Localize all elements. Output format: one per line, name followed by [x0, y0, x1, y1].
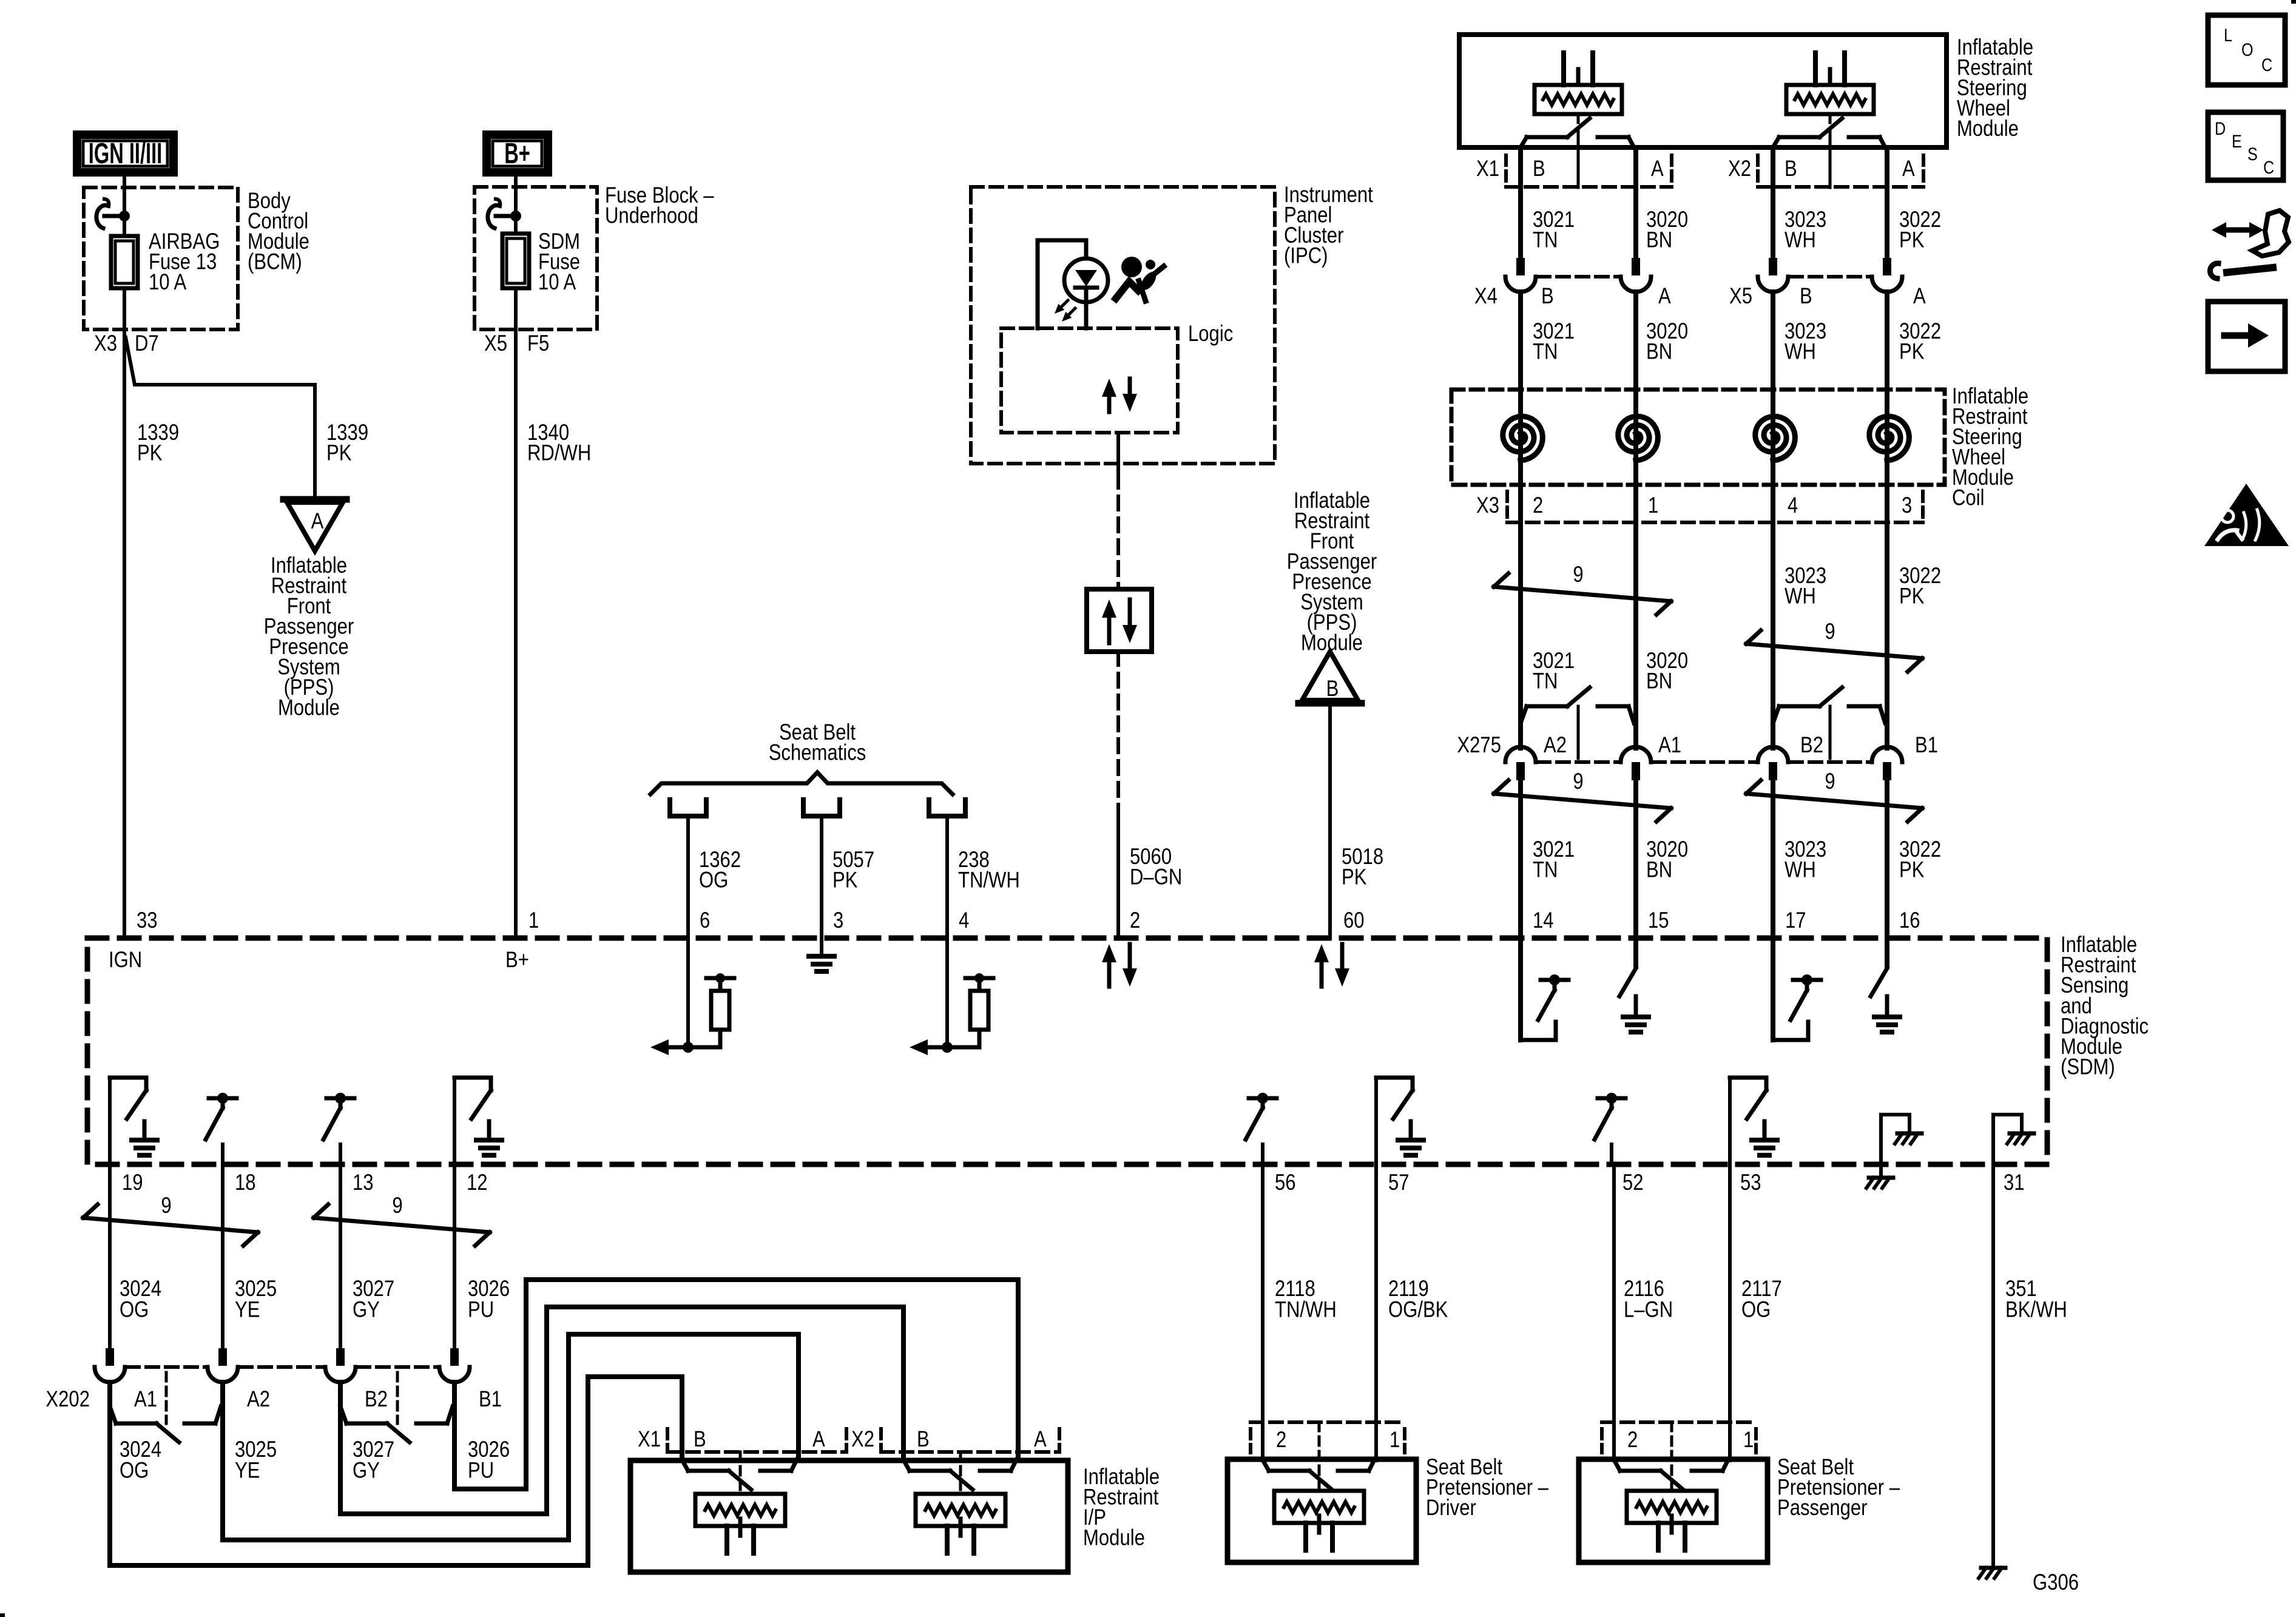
svg-text:BK/WH: BK/WH	[2005, 1297, 2067, 1322]
svg-text:PK: PK	[137, 441, 163, 465]
svg-text:L–GN: L–GN	[1624, 1297, 1673, 1322]
svg-text:TN: TN	[1533, 339, 1558, 364]
Inflatable Restraint Steering Wheel Module Coil dashed box	[1451, 390, 1945, 485]
serial data arrows inside SDM below pin 60	[1320, 962, 1324, 987]
svg-text:B+: B+	[505, 948, 529, 973]
svg-text:A: A	[1658, 284, 1671, 309]
airbag indicator LED circuit wires	[1038, 240, 1086, 328]
svg-text:TN: TN	[1533, 228, 1558, 252]
wires SDM to pretensioner	[1612, 1164, 1616, 1460]
svg-text:IGN: IGN	[109, 948, 142, 973]
svg-text:X2: X2	[1728, 157, 1751, 181]
power label IGN II/III	[77, 135, 174, 172]
svg-text:WH: WH	[1784, 857, 1816, 882]
svg-text:Driver: Driver	[1426, 1496, 1476, 1521]
pretensioner box	[1227, 1459, 1416, 1562]
svg-text:9: 9	[392, 1193, 402, 1218]
triangle ref B	[1298, 700, 1362, 707]
svg-text:13: 13	[353, 1170, 374, 1195]
SDM driver under pin 17	[1771, 938, 1775, 1040]
svg-text:X5: X5	[484, 331, 507, 356]
wire 3026 PU staircase to X2-A	[454, 1280, 1018, 1489]
svg-text:BN: BN	[1646, 857, 1672, 882]
svg-text:B: B	[694, 1427, 706, 1452]
power label B+	[487, 135, 548, 172]
connector X275 cups and pins	[1505, 747, 1536, 762]
SDM internal driver above pin 56	[1249, 1096, 1277, 1101]
svg-text:PK: PK	[1342, 865, 1367, 890]
SDM internal pull-up and arrow	[945, 938, 949, 1047]
SDM internal driver above pin 18	[209, 1096, 237, 1101]
Inflatable Restraint I/P Module box	[630, 1460, 1068, 1572]
svg-text:PK: PK	[1899, 228, 1925, 252]
twisted pair symbol 9 (pair 19-18)	[83, 1218, 258, 1232]
svg-text:1: 1	[1389, 1428, 1400, 1453]
LED light arrows	[1061, 300, 1068, 307]
wire B+ to SDM fuse	[514, 177, 518, 234]
X202 shorting contacts pair B	[338, 1382, 343, 1396]
Logic dashed box	[1001, 328, 1178, 433]
wire 1339 PK left to SDM pin 33	[123, 288, 126, 938]
svg-text:WH: WH	[1784, 584, 1816, 609]
SDM internal driver above pin 52	[1598, 1096, 1626, 1101]
pretensioner squib contacts	[1614, 1460, 1620, 1471]
seat belt connector stub 6	[667, 800, 672, 816]
svg-text:BN: BN	[1646, 669, 1672, 694]
connector X202 cups	[106, 1348, 114, 1366]
svg-text:OG: OG	[699, 868, 728, 893]
svg-text:WH: WH	[1784, 339, 1816, 364]
svg-text:B: B	[1784, 157, 1797, 181]
coil spirals	[1518, 414, 1523, 459]
svg-text:TN: TN	[1533, 857, 1558, 882]
svg-text:A1: A1	[1658, 733, 1681, 758]
svg-text:BN: BN	[1646, 228, 1672, 252]
svg-text:A: A	[1651, 157, 1664, 181]
svg-text:Schematics: Schematics	[769, 740, 866, 765]
svg-text:A: A	[1913, 284, 1926, 309]
svg-text:1: 1	[1648, 493, 1658, 518]
squib driver/passenger stage	[1786, 85, 1874, 114]
X275 shorting contacts pair B	[1773, 706, 1779, 723]
twisted pair symbol 9 (lower pair driver)	[1494, 794, 1671, 808]
wire circuit 238	[945, 816, 949, 938]
svg-text:E: E	[2232, 131, 2242, 152]
svg-text:X3: X3	[1476, 493, 1499, 518]
svg-text:33: 33	[137, 908, 158, 933]
svg-text:15: 15	[1648, 908, 1669, 933]
svg-text:2: 2	[1130, 908, 1140, 933]
serial data arrows inside SDM below pin 2	[1107, 962, 1112, 987]
X275 shorting contacts pair A	[1521, 706, 1527, 723]
svg-text:D–GN: D–GN	[1130, 865, 1182, 890]
switch hook BCM	[104, 199, 109, 206]
wires steering module to X4/X5	[1518, 187, 1523, 258]
seat belt connector stub 4	[927, 800, 931, 816]
icon diagnostic arrows and wrench	[2226, 228, 2245, 233]
svg-text:17: 17	[1785, 908, 1806, 933]
wire circuit 5057	[820, 816, 823, 938]
svg-text:B: B	[1541, 284, 1554, 309]
svg-text:A1: A1	[134, 1387, 157, 1412]
svg-text:OG: OG	[120, 1297, 149, 1322]
SDM internal switch-ground above pin 12	[453, 1078, 456, 1164]
wire IGN to BCM fuse	[123, 177, 126, 236]
wires X4/X5 to coil	[1518, 292, 1523, 414]
wires X3 to X275	[1518, 522, 1523, 748]
svg-text:19: 19	[122, 1170, 143, 1195]
svg-text:10 A: 10 A	[538, 270, 576, 295]
squib wires to connector	[1771, 147, 1775, 187]
pretensioner box	[1579, 1459, 1768, 1562]
svg-text:X4: X4	[1474, 284, 1497, 309]
svg-text:RD/WH: RD/WH	[527, 441, 591, 465]
wire circuit 1362	[686, 816, 690, 938]
squib driver/passenger stage	[1535, 85, 1622, 114]
inline connector X5	[1769, 258, 1777, 275]
svg-text:TN: TN	[1533, 669, 1558, 694]
svg-text:X1: X1	[638, 1427, 661, 1452]
svg-text:X3: X3	[94, 331, 117, 356]
svg-text:2: 2	[1276, 1428, 1286, 1453]
serial data arrows in logic box	[1107, 397, 1112, 412]
wires SDM to X202	[108, 1164, 112, 1348]
connector X1 row	[1504, 155, 1508, 187]
svg-text:A: A	[311, 509, 324, 534]
svg-text:3: 3	[1902, 493, 1912, 518]
svg-text:L: L	[2224, 25, 2232, 46]
squib shorting contacts	[1773, 137, 1779, 147]
squib centre dashed link	[1829, 114, 1832, 187]
svg-text:(SDM): (SDM)	[2061, 1055, 2115, 1079]
svg-text:X5: X5	[1729, 284, 1752, 309]
connector X1 row (I/P module)	[666, 1429, 669, 1452]
wire 5060 dashed lower	[1116, 652, 1120, 809]
wire 3024 OG staircase to X1-B	[110, 1377, 682, 1565]
svg-text:10 A: 10 A	[149, 270, 186, 295]
svg-text:B: B	[1326, 677, 1339, 701]
svg-text:9: 9	[161, 1193, 171, 1218]
svg-text:A2: A2	[247, 1387, 270, 1412]
svg-text:X1: X1	[1476, 157, 1499, 181]
wires SDM to pretensioner	[1261, 1164, 1264, 1460]
serial data symbol box	[1087, 589, 1152, 652]
svg-text:X275: X275	[1457, 733, 1501, 758]
svg-text:X202: X202	[46, 1387, 90, 1412]
svg-text:56: 56	[1275, 1170, 1296, 1195]
fuse AIRBAG Fuse 13	[111, 236, 138, 288]
seat belt connector stub 3	[801, 800, 806, 816]
svg-text:A: A	[1902, 157, 1915, 181]
svg-text:BN: BN	[1646, 339, 1672, 364]
svg-text:4: 4	[1788, 493, 1798, 518]
ground G306	[1981, 1566, 2005, 1570]
svg-text:OG: OG	[1741, 1297, 1771, 1322]
switch hook SDM fuse	[496, 199, 500, 206]
pretensioner squib	[1627, 1491, 1717, 1523]
wires X275 to SDM	[1518, 781, 1523, 938]
svg-text:B: B	[917, 1427, 930, 1452]
svg-text:YE: YE	[235, 1297, 260, 1322]
svg-text:2: 2	[1533, 493, 1543, 518]
SDM internal switch-ground above pin 19	[108, 1078, 112, 1164]
icon LOC	[2208, 15, 2285, 85]
svg-text:PK: PK	[326, 441, 352, 465]
svg-text:G306: G306	[2033, 1570, 2079, 1595]
wire 351 BK/WH to G306	[1991, 1164, 1995, 1567]
svg-text:60: 60	[1343, 908, 1365, 933]
svg-text:S: S	[2247, 144, 2258, 164]
svg-text:C: C	[2263, 157, 2274, 178]
twisted pair symbol 9 (lower pair passenger)	[1746, 794, 1922, 808]
Fuse Block - Underhood dashed box	[474, 187, 597, 329]
svg-text:3: 3	[833, 908, 843, 933]
inline connector X4	[1516, 258, 1525, 275]
SDM internal ground under pin 3	[820, 938, 823, 956]
twisted pair symbol 9 (upper pair driver)	[1494, 587, 1671, 601]
svg-text:PK: PK	[1899, 339, 1925, 364]
icon DESC	[2208, 112, 2283, 180]
svg-text:WH: WH	[1784, 228, 1816, 252]
SDM driver under pin 14	[1518, 938, 1523, 1040]
pretensioner connector row	[1249, 1429, 1252, 1453]
svg-text:C: C	[2261, 55, 2272, 75]
svg-text:Module: Module	[1083, 1525, 1145, 1550]
svg-text:TN/WH: TN/WH	[1275, 1297, 1337, 1322]
svg-text:PK: PK	[1899, 857, 1925, 882]
svg-text:B1: B1	[1915, 733, 1938, 758]
svg-text:D: D	[2215, 118, 2226, 139]
connector X2 row	[1756, 155, 1760, 187]
Inflatable Restraint Sensing and Diagnostic Module dashed box	[87, 938, 2047, 1164]
svg-text:9: 9	[1573, 562, 1583, 587]
Instrument Panel Cluster dashed box	[971, 187, 1275, 464]
squib shorting contacts	[1521, 137, 1527, 147]
svg-text:57: 57	[1388, 1170, 1410, 1195]
twisted pair symbol 9 (upper pair passenger)	[1746, 644, 1922, 658]
svg-text:9: 9	[1825, 619, 1835, 644]
X202 shorting contacts pair A	[107, 1382, 112, 1396]
svg-text:F5: F5	[527, 331, 549, 356]
SDM internal switch-ground above pin 53	[1728, 1078, 1732, 1164]
svg-text:1: 1	[528, 908, 539, 933]
Body Control Module dashed box	[84, 187, 238, 329]
I/P squib	[916, 1494, 1005, 1526]
svg-text:B: B	[1800, 284, 1812, 309]
svg-text:Module: Module	[1957, 116, 2019, 141]
svg-text:53: 53	[1740, 1170, 1761, 1195]
icon forward arrow box	[2208, 302, 2285, 371]
svg-text:PK: PK	[1899, 584, 1925, 609]
SDM switch-ground under pin 15	[1633, 938, 1638, 967]
svg-text:18: 18	[235, 1170, 256, 1195]
svg-text:14: 14	[1533, 908, 1554, 933]
wire 1339 PK right branch to PPS triangle A	[126, 337, 315, 499]
connector X3 row	[1505, 491, 1509, 522]
svg-text:IGN II/III: IGN II/III	[89, 137, 162, 170]
svg-text:6: 6	[700, 908, 710, 933]
page artifact marks	[0, 1613, 5, 1617]
svg-text:(BCM): (BCM)	[248, 249, 302, 274]
svg-text:YE: YE	[235, 1458, 260, 1483]
svg-text:TN/WH: TN/WH	[958, 868, 1020, 893]
squib wires to connector	[1518, 147, 1523, 187]
svg-text:Passenger: Passenger	[1777, 1496, 1868, 1521]
svg-text:OG: OG	[120, 1458, 149, 1483]
svg-text:B1: B1	[479, 1387, 502, 1412]
svg-text:(IPC): (IPC)	[1284, 243, 1328, 268]
svg-text:OG/BK: OG/BK	[1388, 1297, 1448, 1322]
svg-text:A: A	[1034, 1427, 1047, 1452]
svg-text:9: 9	[1573, 769, 1583, 794]
I/P squib shorting contacts	[682, 1460, 688, 1471]
fuse SDM Fuse	[502, 234, 529, 288]
airbag warning icon	[1121, 257, 1142, 277]
svg-text:PK: PK	[832, 868, 858, 893]
svg-text:GY: GY	[353, 1297, 380, 1322]
wire 5018 PK	[1328, 703, 1332, 938]
svg-text:B2: B2	[1800, 733, 1823, 758]
svg-text:4: 4	[959, 908, 969, 933]
Inflatable Restraint Steering Wheel Module box	[1459, 35, 1947, 147]
wire 1340 RD/WH to SDM pin 1	[514, 288, 518, 938]
svg-text:A: A	[812, 1427, 825, 1452]
brace	[650, 772, 953, 794]
SDM internal case ground (no pin)	[1879, 1115, 1883, 1176]
SDM internal driver above pin 13	[326, 1096, 354, 1101]
svg-text:31: 31	[2004, 1170, 2025, 1195]
svg-text:16: 16	[1899, 908, 1920, 933]
I/P squib shorting contacts	[903, 1460, 910, 1471]
LED airbag indicator	[1064, 258, 1108, 302]
SDM switch-ground under pin 16	[1885, 938, 1889, 967]
squib centre dashed link	[1577, 114, 1580, 187]
svg-text:B: B	[1533, 157, 1545, 181]
svg-text:B2: B2	[365, 1387, 388, 1412]
SDM internal pull-up and arrow	[686, 938, 690, 1047]
wire 3027 GY staircase to X2-B	[340, 1307, 903, 1514]
triangle ref A	[283, 496, 346, 503]
SDM internal case ground pin 31	[1991, 1115, 1995, 1164]
svg-text:A2: A2	[1544, 733, 1567, 758]
svg-text:Underhood: Underhood	[605, 203, 698, 228]
svg-text:52: 52	[1622, 1170, 1644, 1195]
pretensioner squib	[1274, 1491, 1364, 1523]
svg-text:X2: X2	[851, 1427, 874, 1452]
SDM internal switch-ground above pin 57	[1374, 1078, 1378, 1164]
svg-text:Logic: Logic	[1188, 322, 1233, 346]
wire 5060 D-GN	[1116, 433, 1120, 474]
svg-text:Module: Module	[278, 695, 340, 720]
wire 3025 YE staircase to X1-A	[223, 1334, 799, 1540]
svg-text:GY: GY	[353, 1458, 380, 1483]
svg-text:D7: D7	[135, 331, 159, 356]
svg-text:O: O	[2241, 39, 2254, 60]
connector X2 row (I/P module)	[879, 1429, 883, 1452]
svg-text:Coil: Coil	[1952, 485, 1985, 510]
pretensioner connector row	[1600, 1429, 1604, 1453]
pretensioner squib contacts	[1263, 1460, 1269, 1471]
icon airbag caution triangle	[2204, 484, 2289, 546]
I/P squib	[695, 1494, 785, 1526]
svg-text:PU: PU	[468, 1458, 494, 1483]
svg-text:9: 9	[1825, 769, 1835, 794]
svg-text:B+: B+	[504, 137, 530, 170]
svg-text:PU: PU	[468, 1297, 494, 1322]
svg-text:1: 1	[1743, 1428, 1754, 1453]
svg-text:12: 12	[467, 1170, 488, 1195]
twisted pair symbol 9 (pair 13-12)	[314, 1218, 490, 1232]
svg-text:2: 2	[1627, 1428, 1638, 1453]
